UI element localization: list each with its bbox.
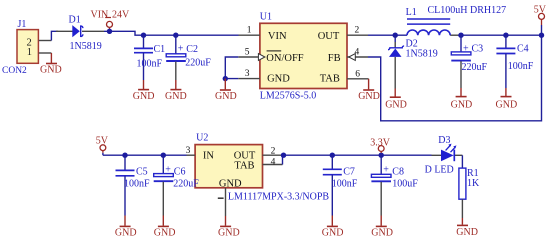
wire TAB riser to OUT [282,155,284,164]
svg-text:GND: GND [267,74,290,85]
capacitor C4 100nF [496,35,533,88]
svg-text:IN: IN [203,151,214,162]
svg-text:220uF: 220uF [173,178,199,189]
wire OUT net [368,34,407,36]
power port 5V bottom [96,136,109,156]
junction C1 node [141,33,146,38]
wire OUT net of U2 [281,154,431,156]
svg-text:OUT: OUT [318,31,340,42]
svg-text:U2: U2 [196,133,208,144]
svg-text:100nF: 100nF [508,61,534,72]
pin 1 VIN stub of U1 [239,26,260,36]
svg-text:GND: GND [165,91,187,102]
junction C6 node [161,153,166,158]
svg-text:1: 1 [247,26,252,36]
junction D2 node [393,33,398,38]
capacitor C6 220uF [154,155,200,215]
svg-text:GND: GND [133,91,155,102]
ground below U1 TAB [358,79,380,102]
svg-text:24V: 24V [112,10,130,21]
svg-text:2: 2 [355,26,360,36]
svg-text:100nF: 100nF [332,178,358,189]
ground below C1 [133,80,155,102]
regulator U1 body [260,12,347,102]
svg-text:C4: C4 [517,44,529,55]
svg-text:GND: GND [496,99,518,110]
wire ON/OFF to GND net [225,57,238,79]
svg-text:D3: D3 [438,135,450,146]
svg-text:+: + [178,43,184,54]
svg-text:C7: C7 [343,167,355,178]
svg-text:C1: C1 [154,44,166,55]
capacitor C2 220uF [166,35,211,80]
pin 1 GND stub of U2 [218,188,226,216]
junction C4 node [503,33,508,38]
svg-text:4: 4 [271,158,276,168]
LED D3 [425,135,463,175]
pin 2 OUT stub of U2 [263,146,282,156]
capacitor C1 100nF [134,35,165,80]
ground below J1 pin 1 [40,53,62,76]
svg-text:C6: C6 [174,167,186,178]
svg-text:LM2576S-5.0: LM2576S-5.0 [260,90,316,101]
junction U1 gnd node [223,76,228,81]
svg-text:GND: GND [218,228,240,239]
wire LED to R1 [461,155,463,168]
ground below C7 [322,216,344,239]
junction VIN node [107,29,112,34]
wire L1 right to 5V node [450,34,458,36]
ground below D2 [385,89,407,111]
svg-text:GND: GND [215,91,237,102]
svg-text:C5: C5 [136,167,148,178]
svg-text:GND: GND [219,178,242,189]
svg-text:TAB: TAB [320,73,340,84]
svg-text:1N5819: 1N5819 [406,48,438,59]
wire J1 pin2 to D1 [51,31,58,40]
svg-text:CON2: CON2 [2,66,27,76]
ground below C8 [371,216,393,239]
svg-text:100uF: 100uF [392,178,418,189]
svg-text:100nF: 100nF [124,178,150,189]
svg-text:5: 5 [245,48,250,58]
resistor R1 1K [459,168,480,218]
ground below C6 [154,216,176,239]
svg-text:GND: GND [40,65,62,76]
inductor L1 CL100uH DRH127 [406,5,507,35]
pin 6 TAB stub of U1 [347,70,369,80]
pin 2 stub of J1 [39,40,52,42]
pin 1 stub of J1 [39,52,52,54]
regulator U2 body [195,133,329,203]
svg-text:3: 3 [245,69,250,79]
pin 4 FB stub of U1 [347,48,368,61]
svg-text:L1: L1 [406,7,417,18]
junction C3 node [458,33,463,38]
svg-text:C8: C8 [392,167,404,178]
svg-text:3: 3 [186,146,191,156]
svg-text:D1: D1 [69,15,81,26]
svg-text:ON/OFF: ON/OFF [266,53,304,64]
svg-text:U1: U1 [260,12,272,23]
svg-text:220uF: 220uF [185,57,211,68]
junction C5 node [122,153,127,158]
capacitor C8 100uF [371,155,418,215]
svg-text:C3: C3 [472,44,484,55]
svg-text:220uF: 220uF [462,62,488,73]
svg-text:100nF: 100nF [137,59,163,70]
ground below U1 ON/OFF [215,79,237,103]
junction 5V node [539,33,544,38]
ground below U2 [218,216,240,239]
ground below C3 [451,88,473,110]
power port VIN_24V [91,10,131,32]
capacitor C5 100nF [116,155,151,215]
svg-text:C2: C2 [186,44,198,55]
svg-text:VIN: VIN [268,31,287,42]
power port 3.3V [370,137,391,155]
svg-text:2: 2 [271,146,276,156]
junction C2 node [173,33,178,38]
svg-text:GND: GND [358,91,380,102]
connector J1 [2,19,38,76]
junction C7 node [330,153,335,158]
svg-text:TAB: TAB [234,160,254,171]
svg-text:1K: 1K [467,178,480,189]
wire 5V to U2 pin3 [103,154,187,156]
svg-text:FB: FB [328,53,341,64]
svg-text:D LED: D LED [425,164,454,175]
ground below R1 [456,218,478,238]
svg-text:GND: GND [371,228,393,239]
svg-text:CL100uH DRH127: CL100uH DRH127 [428,5,507,16]
capacitor C3 220uF [451,35,487,88]
power port 5V top [534,4,547,35]
wire FB loop [368,35,542,121]
svg-text:1N5819: 1N5819 [70,41,102,52]
pin 3 GND stub of U1 [238,69,260,79]
svg-text:J1: J1 [18,19,27,30]
pin 4 TAB stub of U2 [263,158,283,168]
ground below C2 [165,80,187,102]
svg-text:LM1117MPX-3.3/NOPB: LM1117MPX-3.3/NOPB [228,192,330,203]
pin 3 stub of U2 [186,146,196,156]
svg-text:GND: GND [385,99,407,110]
junction 3.3V node [379,153,384,158]
ground below C4 [496,88,518,110]
svg-text:GND: GND [322,228,344,239]
svg-text:GND: GND [154,228,176,239]
capacitor C7 100nF [323,155,358,215]
svg-text:VIN: VIN [91,10,109,21]
wire D1 to step-down jog [104,31,239,35]
diode D1 1N5819 [56,15,104,52]
svg-text:6: 6 [355,70,360,80]
svg-text:1: 1 [27,47,32,58]
ground below C5 [115,216,137,239]
junction U2 out node [281,153,286,158]
pin 5 ON/OFF stub of U1 [238,48,265,61]
pin 2 OUT stub of U1 [347,26,368,36]
svg-text:GND: GND [451,99,473,110]
svg-text:GND: GND [115,228,137,239]
diode D2 1N5819 [388,35,438,88]
svg-text:GND: GND [456,227,478,238]
